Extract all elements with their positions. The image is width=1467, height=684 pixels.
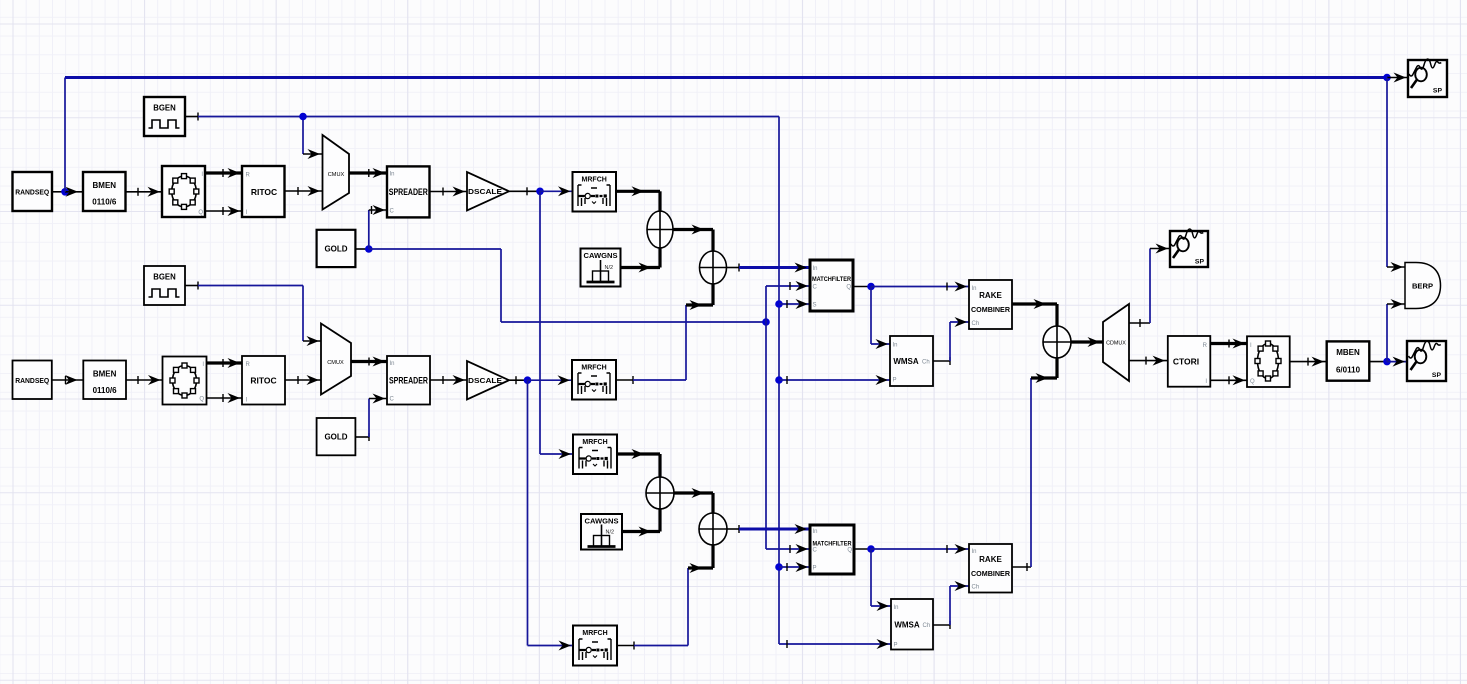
svg-text:Q: Q xyxy=(199,397,204,403)
svg-text:In: In xyxy=(972,549,977,555)
block GOLD (token 7) Gold-code generator, upper chain xyxy=(317,230,356,267)
node junction DSCALE1 output (net TX1) xyxy=(536,188,544,196)
node junction CLK1 to MATCHFILTER(35) P xyxy=(775,563,783,571)
svg-text:CMUX: CMUX xyxy=(327,360,344,366)
wire constellation(11) Q to RITOC(12) I xyxy=(207,393,243,403)
wire DET1 to RAKE COMBINER(26) In xyxy=(871,282,969,292)
wire RXBITS to SP(31) probe xyxy=(1387,357,1407,367)
wire RITOC(12) to CMUX(13) input xyxy=(285,375,321,385)
wire adder A4 to MATCHFILTER(35) In (received signal rx2) xyxy=(727,524,810,534)
block RITOC (token 12) real-to-complex, lower chain xyxy=(242,356,285,405)
wire constellation(11) I to RITOC(12) R xyxy=(207,358,243,368)
wire RANDSEQ(0) output stub to junction xyxy=(52,191,65,193)
svg-text:In: In xyxy=(972,286,977,292)
adder A4 interference adder, lower channel xyxy=(699,513,727,545)
wire CLK1 end to WMSA(36) P input xyxy=(779,639,891,649)
wire CMUX(4) to SPREADER(5) In xyxy=(349,168,387,178)
svg-text:C: C xyxy=(813,548,818,554)
svg-text:MATCHFILTER: MATCHFILTER xyxy=(812,277,852,283)
block GOLD (token 16) Gold-code generator, lower chain xyxy=(317,418,356,455)
block WMSA (token 36) channel estimator, receiver 2 xyxy=(891,599,933,650)
svg-text:RAKE: RAKE xyxy=(979,555,1002,564)
svg-text:Ch: Ch xyxy=(972,321,980,327)
node junction MF2 output (net DET2) xyxy=(867,545,875,553)
amplifier DSCALE (token 6) upper chain xyxy=(467,172,509,211)
svg-text:MBEN: MBEN xyxy=(1336,348,1360,357)
sink BERP (token 34) bit-error-rate probe xyxy=(1405,263,1441,309)
svg-text:P: P xyxy=(893,378,897,384)
svg-text:Ch: Ch xyxy=(972,585,980,591)
svg-text:C: C xyxy=(390,209,395,215)
svg-text:WMSA: WMSA xyxy=(893,357,919,366)
wire SPREADER(14) to DSCALE(15) xyxy=(430,375,467,385)
svg-text:SP: SP xyxy=(1433,88,1443,95)
block RAKE COMBINER (token 26) receiver 1 xyxy=(969,280,1012,329)
block MRFCH (token 21) fading channel, path 3 (user1 to rx2) xyxy=(573,435,617,475)
wire MRFCH(21) to adder A3 top xyxy=(617,449,660,477)
svg-text:BERP: BERP xyxy=(1412,282,1433,291)
wire CLK1 to MATCHFILTER(24) S input xyxy=(779,299,810,309)
node junction on RANDSEQ(0) output xyxy=(61,188,69,196)
wire DSCALE(15) output stub xyxy=(509,376,528,384)
wire junction to BMEN(1) input with arrow xyxy=(65,187,83,197)
block BGEN (token 8) bit-clock generator, upper chain xyxy=(144,97,185,136)
block MRFCH (token 20) fading channel, path 2 (user2 to rx1) xyxy=(572,360,616,400)
wire CAWGNS(22) to adder A3 bottom xyxy=(622,509,660,537)
svg-text:Q: Q xyxy=(847,548,852,554)
wire adder A5 to CDMUX(27) input xyxy=(1071,337,1103,347)
svg-text:In: In xyxy=(390,361,395,367)
block RANDSEQ (token 0) random bit source, upper chain xyxy=(13,172,53,211)
svg-text:S: S xyxy=(813,303,817,309)
wire CODE1 down to MATCHFILTER(35) C input xyxy=(766,322,810,554)
sink SP (token 32) signal probe on pilot channel xyxy=(1170,229,1208,267)
wire MRFCH(20) output up to adder A2 bottom (cross-user interference) xyxy=(616,284,713,384)
svg-text:In: In xyxy=(894,605,899,611)
svg-text:CAWGNS: CAWGNS xyxy=(585,519,619,526)
wire REF down to BERP top input xyxy=(1387,78,1405,273)
block MRFCH (token 23) fading channel, path 4 (user2 to rx2) xyxy=(573,626,617,666)
wire REF to SP(33) with arrow xyxy=(1387,73,1408,83)
svg-text:C: C xyxy=(390,397,395,403)
wire CODE1 up to SPREADER(5) C input xyxy=(369,205,387,249)
svg-text:N/2: N/2 xyxy=(605,265,614,271)
svg-text:COMBINER: COMBINER xyxy=(971,305,1011,314)
svg-text:WMSA: WMSA xyxy=(894,621,920,630)
node junction MBEN output (net RXBITS) xyxy=(1383,358,1391,366)
svg-text:RAKE: RAKE xyxy=(979,291,1002,300)
svg-text:SP: SP xyxy=(1195,259,1205,266)
svg-text:MATCHFILTER: MATCHFILTER xyxy=(813,542,853,548)
wire BMEN(10) to constellation(11) xyxy=(126,375,163,385)
node junction CLK1 to MATCHFILTER(24) S xyxy=(775,300,783,308)
block BMEN 0110/6 (token 1) bit-to-symbol mapper, upper chain xyxy=(83,172,126,211)
wire TX2 to MRFCH(20) input xyxy=(528,375,573,385)
svg-text:CAWGNS: CAWGNS xyxy=(584,253,618,260)
block QPSK constellation mapper (token 11) lower chain xyxy=(163,357,207,405)
svg-text:BMEN: BMEN xyxy=(93,370,117,379)
wire constellation(29) to MBEN(30) xyxy=(1290,357,1327,367)
wire MBEN(30) output stub xyxy=(1369,361,1387,363)
mux CMUX (token 13) lower chain xyxy=(321,324,351,395)
svg-text:BMEN: BMEN xyxy=(93,181,117,190)
svg-text:SP: SP xyxy=(1432,372,1442,379)
svg-text:RANDSEQ: RANDSEQ xyxy=(15,188,49,197)
svg-text:BGEN: BGEN xyxy=(153,273,176,282)
wire CAWGNS(19) to adder A1 bottom xyxy=(621,248,661,273)
block RAKE COMBINER (token 37) receiver 2 xyxy=(969,544,1012,593)
svg-text:RITOC: RITOC xyxy=(251,187,277,197)
wire CDMUX(27) bottom output to CTORI(28) xyxy=(1129,356,1168,366)
svg-text:BGEN: BGEN xyxy=(153,104,176,113)
svg-text:In: In xyxy=(813,266,818,272)
wire BMEN(1) to constellation(2) xyxy=(126,187,163,197)
wire RAKE COMBINER(37) output up to adder A5 bottom xyxy=(1012,358,1057,571)
svg-text:DSCALE: DSCALE xyxy=(468,376,502,385)
wire CDMUX(27) top output to SP(32) probe xyxy=(1129,244,1170,328)
node junction CLK1 to WMSA(25) P xyxy=(775,376,783,384)
svg-text:6/0110: 6/0110 xyxy=(1336,366,1361,375)
svg-text:MRFCH: MRFCH xyxy=(582,439,607,446)
block CAWGNS (token 22) complex AWGN source, lower channel xyxy=(581,514,622,550)
svg-text:RITOC: RITOC xyxy=(250,376,276,386)
block BMEN 0110/6 (token 10) mapper, lower chain xyxy=(83,361,126,400)
amplifier DSCALE (token 15) lower chain xyxy=(467,361,509,400)
adder A2 interference adder, upper channel xyxy=(700,251,727,284)
sink SP (token 31) signal probe at receiver output xyxy=(1407,341,1446,381)
block RANDSEQ (token 9) random bit source, lower chain xyxy=(13,361,52,400)
svg-text:In: In xyxy=(813,529,818,535)
wire BGEN(8) output to CMUX(4) select and down the page (net CLK1) xyxy=(185,113,779,645)
svg-text:SPREADER: SPREADER xyxy=(389,376,429,386)
demux CDMUX (token 27) xyxy=(1103,304,1129,381)
block MATCHFILTER (token 24) matched filter, receiver 1 xyxy=(810,260,853,311)
mux CMUX (token 4) upper chain xyxy=(323,135,350,210)
wire CLK1 to MATCHFILTER(35) P input xyxy=(779,562,810,572)
svg-text:CMUX: CMUX xyxy=(328,172,345,178)
svg-text:Q: Q xyxy=(846,285,851,291)
svg-text:COMBINER: COMBINER xyxy=(971,569,1011,578)
adder A5 rake output combiner xyxy=(1043,326,1071,358)
wire adder A3 to adder A4 top xyxy=(674,488,713,513)
block BGEN (token 17) bit-clock generator, lower chain xyxy=(144,266,185,305)
wire DSCALE(6) output stub xyxy=(509,187,540,195)
node junction MF1 output (net DET1) xyxy=(867,283,875,291)
wire TX2 down to MRFCH(23) input xyxy=(528,380,574,650)
svg-text:In: In xyxy=(390,172,395,178)
svg-text:SPREADER: SPREADER xyxy=(389,187,429,197)
wire RITOC(3) to CMUX(4) input xyxy=(285,186,323,196)
adder A3 noise adder, lower channel xyxy=(646,477,674,509)
wire TX1 down to MRFCH(21) input xyxy=(540,191,573,459)
block WMSA (token 25) channel estimator, receiver 1 xyxy=(890,336,933,386)
block MRFCH (token 18) multipath Rayleigh fading channel, path 1 xyxy=(573,172,617,212)
svg-text:MRFCH: MRFCH xyxy=(581,365,606,372)
wire CODE1 across to matched filters xyxy=(369,249,766,322)
wire CLK1 to WMSA(25) P input xyxy=(779,375,890,385)
block SPREADER (token 5) code spreader, upper chain xyxy=(387,166,430,217)
svg-text:Q: Q xyxy=(198,210,203,216)
svg-text:MRFCH: MRFCH xyxy=(582,177,607,184)
svg-text:GOLD: GOLD xyxy=(324,244,347,253)
wire CMUX(13) to SPREADER(14) In xyxy=(351,357,387,367)
svg-text:R: R xyxy=(246,362,251,368)
wire BGEN(17) output to CMUX(13) select xyxy=(185,282,321,347)
wire DET2 down to WMSA(36) In xyxy=(871,549,891,611)
svg-text:Ch: Ch xyxy=(923,623,931,629)
wire CTORI(28) I to constellation(29) Q xyxy=(1210,375,1247,385)
svg-text:GOLD: GOLD xyxy=(324,433,347,442)
wire DET1 down to WMSA(25) In xyxy=(871,287,890,350)
svg-text:R: R xyxy=(1203,343,1208,349)
wire RXBITS up to BERP(34) bottom input xyxy=(1387,299,1405,362)
node junction REF at top right xyxy=(1383,74,1391,82)
block MATCHFILTER (token 35) matched filter, receiver 2 xyxy=(810,525,854,574)
svg-text:CTORI: CTORI xyxy=(1173,357,1199,367)
svg-text:Ch: Ch xyxy=(922,360,930,366)
wire MRFCH(18) to adder A1 top xyxy=(616,186,660,211)
svg-text:MRFCH: MRFCH xyxy=(582,630,607,637)
svg-text:R: R xyxy=(246,173,251,179)
wire CTORI(28) R to constellation(29) I xyxy=(1210,339,1247,349)
block CAWGNS (token 19) complex AWGN source, upper channel xyxy=(581,249,621,287)
svg-text:In: In xyxy=(893,343,898,349)
block RITOC (token 3) real-to-complex, upper chain xyxy=(242,166,285,217)
svg-text:0110/6: 0110/6 xyxy=(92,198,117,207)
wire WMSA(25) Ch to RAKE COMBINER(26) Ch xyxy=(933,317,969,365)
svg-text:Q: Q xyxy=(1250,379,1255,385)
block CTORI (token 28) complex-to-real xyxy=(1168,336,1211,387)
wire adder A1 to adder A2 top xyxy=(673,225,713,252)
wire SPREADER(5) to DSCALE(6) xyxy=(430,187,468,197)
node junction CLK1 at BGEN1 output corner xyxy=(299,113,307,121)
block QPSK constellation mapper (token 2) upper chain xyxy=(162,166,205,217)
svg-text:C: C xyxy=(813,285,818,291)
svg-text:RANDSEQ: RANDSEQ xyxy=(15,376,49,385)
wire reference bits: up and across top to far right (net REF) xyxy=(65,78,1387,192)
wire DET2 to RAKE COMBINER(37) In xyxy=(871,544,969,554)
node junction CODE1 tee xyxy=(762,318,770,326)
node junction DSCALE2 output (net TX2) xyxy=(524,376,532,384)
block MBEN 6/0110 (token 30) symbol-to-bit demapper xyxy=(1327,341,1370,380)
svg-text:DSCALE: DSCALE xyxy=(468,187,502,196)
wire MRFCH(23) output up to adder A4 bottom xyxy=(617,545,713,650)
node junction GOLD1 code (net CODE1) xyxy=(365,245,373,253)
svg-text:N/2: N/2 xyxy=(606,530,615,536)
wire adder A2 to MATCHFILTER(24) In (received signal rx1) xyxy=(727,263,811,273)
wire GOLD(7) output stub xyxy=(355,248,368,250)
svg-text:P: P xyxy=(813,566,817,572)
wire RAKE COMBINER(26) output to adder A5 top xyxy=(1012,299,1057,326)
svg-text:CDMUX: CDMUX xyxy=(1106,341,1126,347)
wire TX1 to MRFCH(18) input xyxy=(540,186,573,196)
wire constellation(2) I to RITOC(3) R xyxy=(205,168,242,178)
block SPREADER (token 14) code spreader, lower chain xyxy=(387,356,430,405)
wire CODE1 up to MATCHFILTER(24) C input xyxy=(766,281,810,322)
wire constellation(2) Q to RITOC(3) I xyxy=(205,206,242,216)
wire RANDSEQ(9) to BMEN(10) xyxy=(52,375,84,385)
svg-text:P: P xyxy=(894,643,898,649)
adder A1 noise adder, upper channel xyxy=(647,211,673,248)
wire WMSA(36) Ch to RAKE COMBINER(37) Ch xyxy=(933,581,969,629)
sink SP (token 33) signal probe on reference bits xyxy=(1408,59,1447,97)
block constellation decision (token 29) receiver xyxy=(1247,336,1290,387)
svg-text:0110/6: 0110/6 xyxy=(93,386,118,395)
wire GOLD(16) output to SPREADER(14) C input xyxy=(355,394,387,442)
wire MATCHFILTER(24) Q output stub xyxy=(853,286,871,288)
wire MATCHFILTER(35) Q output stub xyxy=(854,548,871,550)
